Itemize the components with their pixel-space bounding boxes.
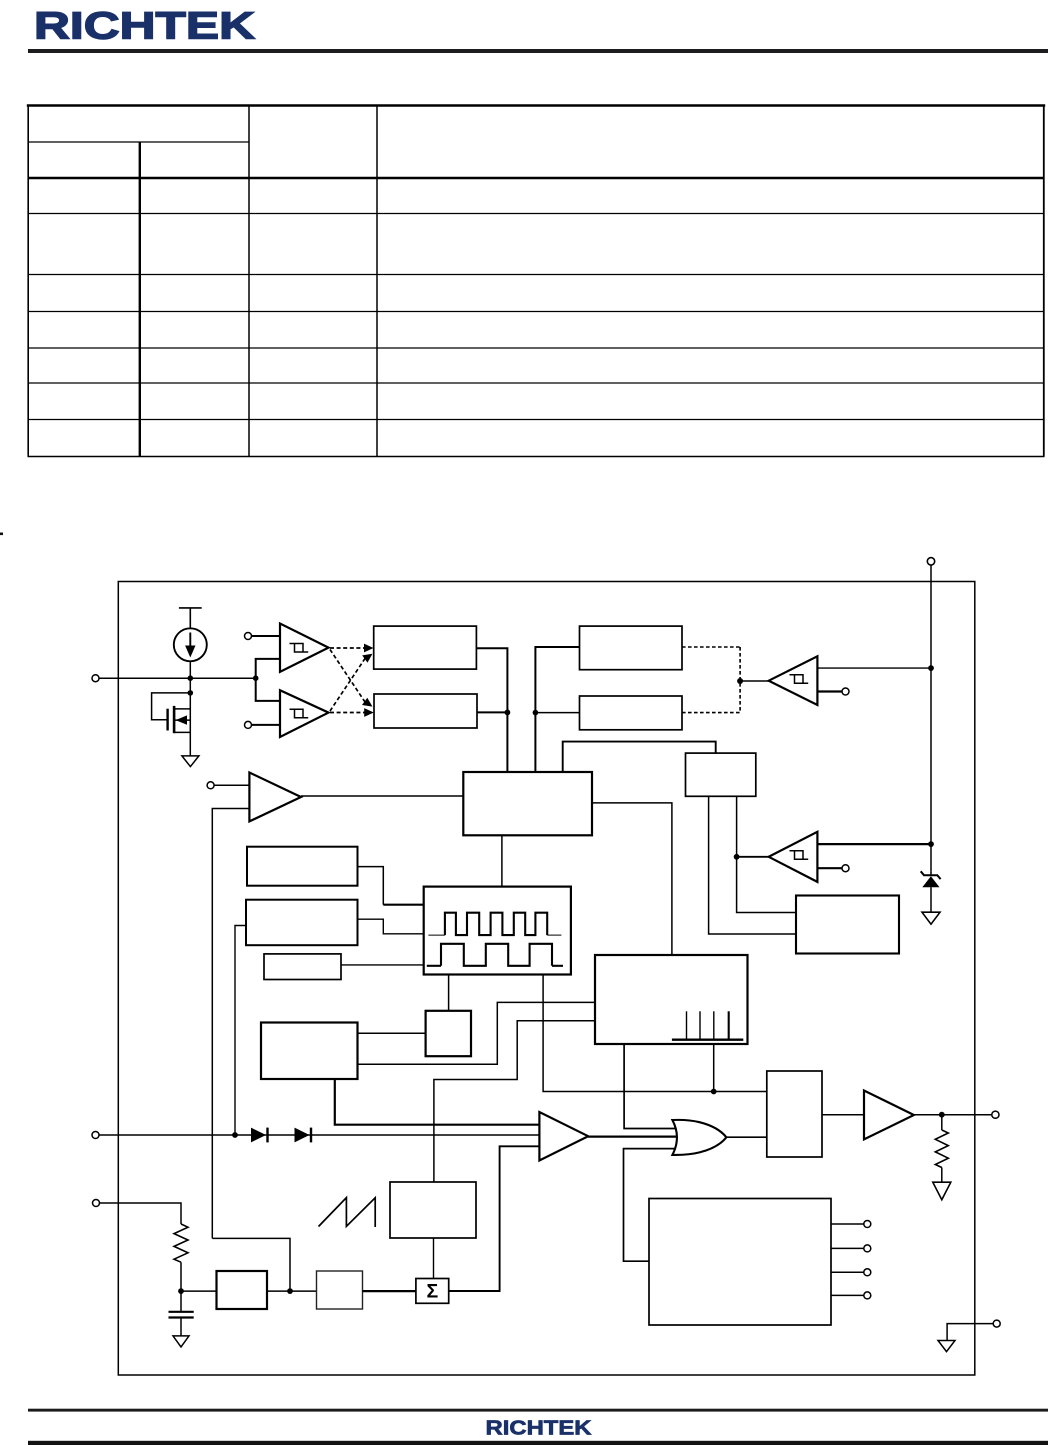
pin table xyxy=(27,106,1045,457)
terminal GND xyxy=(993,1320,1000,1327)
wire RT to resistor xyxy=(100,1203,182,1224)
VCC T-bar xyxy=(179,608,202,629)
wire node down to mosfet xyxy=(189,678,191,709)
buffer amp U5 xyxy=(249,773,301,822)
wire big box top to box K top xyxy=(563,742,716,772)
transistor Q1 xyxy=(168,706,191,756)
box A (frequency select) xyxy=(247,847,358,886)
wire node to box G xyxy=(181,1290,217,1292)
wire latch to driver xyxy=(822,1114,864,1116)
wire riser to MIN TON boxes xyxy=(535,647,579,772)
wire ramp box to sigma xyxy=(433,1238,435,1279)
wire FB main xyxy=(99,1134,539,1136)
wire control logic bottom to oscillator xyxy=(501,835,503,886)
terminal comparator1 + input xyxy=(245,633,252,640)
oscillator waveform upper xyxy=(428,913,561,935)
wire U4 lower to terminal xyxy=(817,867,842,869)
stray margin tick xyxy=(0,533,3,536)
node TON outputs join xyxy=(505,710,511,716)
dashed wire U1 to box TON1 xyxy=(330,647,367,649)
wire pulse box bottom left leg to OR gate xyxy=(624,1044,678,1129)
terminal U5 input xyxy=(207,782,214,789)
terminal U3 reference xyxy=(842,688,849,695)
box MIN2 xyxy=(580,696,683,730)
wire resistor to node xyxy=(180,1262,182,1291)
wire box B to oscillator xyxy=(358,919,424,934)
arrowhead into TON2 (straight) xyxy=(364,708,374,717)
node dashed bracket xyxy=(737,678,743,684)
wire U5 feedback input xyxy=(212,809,249,1239)
box soft-start / fault logic xyxy=(649,1199,831,1326)
wire box E to pulse box upper xyxy=(358,1002,596,1064)
PWM comparator U6 xyxy=(539,1112,588,1161)
dashed wire U2 to box TON2 xyxy=(330,712,367,714)
node FS branch xyxy=(232,1132,238,1138)
wire bottom box to OR gate lower input xyxy=(624,1149,679,1262)
box OCP/PGOOD xyxy=(796,896,899,954)
wire box A into oscillator edge xyxy=(383,904,423,906)
wire U4 tip to node xyxy=(737,856,769,858)
OR gate G1 xyxy=(672,1120,726,1155)
node at current source xyxy=(188,675,194,681)
ground (mosfet source) xyxy=(182,756,199,767)
wire branch to comparator1 - input xyxy=(256,659,280,678)
wire TON2 output xyxy=(477,711,507,713)
header rule xyxy=(28,49,1048,53)
wire box B input from FS line xyxy=(235,926,246,1136)
box TON1 xyxy=(374,626,477,669)
node riser branch xyxy=(533,710,539,716)
outer block diagram border xyxy=(118,582,975,1376)
VCC bus wire xyxy=(930,565,932,872)
dashed wire U1 to box TON2 (cross) xyxy=(330,650,366,704)
capacitor C1 xyxy=(169,1291,194,1336)
ground (GND pin) xyxy=(938,1341,955,1352)
box pulse generator xyxy=(595,955,748,1044)
arrowhead into TON2 (diagonal) xyxy=(362,698,373,707)
wire output stub 3 xyxy=(831,1271,864,1273)
terminal out 2 xyxy=(864,1245,871,1252)
terminal VCC top xyxy=(927,558,934,565)
box K (protection latch) xyxy=(686,753,756,796)
box TON2 xyxy=(374,694,477,728)
wire box E to box D xyxy=(358,1032,426,1034)
current source I1 xyxy=(174,628,207,661)
box C (divider) xyxy=(264,954,341,980)
svg-text:Σ: Σ xyxy=(426,1281,438,1303)
terminal DRV xyxy=(992,1111,999,1118)
wire terminal to U5 xyxy=(214,784,249,786)
sigma block xyxy=(416,1279,449,1304)
wire GND to ground xyxy=(947,1324,993,1341)
wire output stub 1 xyxy=(831,1223,864,1225)
node feedback branch xyxy=(287,1288,293,1294)
footer rule thick xyxy=(28,1441,1048,1445)
ground (driver resistor) xyxy=(933,1182,951,1200)
wire branch to comparator2 + input xyxy=(256,678,280,701)
wire OCSET horizontal xyxy=(99,677,256,679)
box G (ramp adjust) xyxy=(217,1271,268,1309)
wire box H to sigma xyxy=(363,1290,416,1292)
box oscillator xyxy=(424,887,571,975)
box E (soft-start) xyxy=(261,1023,358,1080)
wire U5 output to control logic xyxy=(301,795,463,797)
terminal U4 reference xyxy=(842,865,849,872)
sawtooth glyph xyxy=(319,1198,376,1227)
svg-text:RICHTEK: RICHTEK xyxy=(34,6,256,48)
wire node to comparator U3 tip xyxy=(740,680,769,682)
box D (divider latch) xyxy=(426,1011,471,1056)
wire control logic right to pulse box top xyxy=(592,803,672,955)
box control logic xyxy=(463,772,592,835)
node pulse box bottom to gate wire xyxy=(711,1089,717,1095)
wire U4 upper to VCC bus xyxy=(817,843,931,845)
ramp box xyxy=(390,1182,476,1238)
node driver output xyxy=(939,1112,945,1118)
arrowhead into TON1 (straight) xyxy=(364,644,374,653)
ground (zener) xyxy=(922,912,940,924)
box B (phase select) xyxy=(246,900,358,946)
wire current source to node xyxy=(189,661,191,678)
diode D1 xyxy=(251,1128,268,1143)
wire U3 lower to terminal xyxy=(817,690,842,692)
diode D2 xyxy=(295,1128,312,1143)
resistor R1 xyxy=(174,1224,188,1262)
wire box E bottom to PWM comparator xyxy=(335,1079,540,1125)
oscillator waveform lower xyxy=(427,944,563,966)
terminal OCSET xyxy=(92,675,99,682)
resistor R2 xyxy=(935,1115,948,1182)
wire pulse box to ramp box xyxy=(434,1021,595,1182)
box MIN1 xyxy=(580,626,683,670)
wire feedback up to buffer xyxy=(212,1238,290,1291)
wire box K to box left lower xyxy=(709,796,796,934)
wire U4 node down into box left upper xyxy=(737,857,796,913)
wire box C to oscillator xyxy=(341,964,424,966)
wire sigma to PWM comparator xyxy=(449,1146,540,1291)
terminal out 1 xyxy=(864,1221,871,1228)
comparator U2 (hysteresis) xyxy=(280,690,329,737)
node on VCC bus (U3) xyxy=(928,665,934,671)
terminal out 3 xyxy=(864,1269,871,1276)
svg-text:RICHTEK: RICHTEK xyxy=(486,1417,593,1439)
terminal out 4 xyxy=(864,1292,871,1299)
terminal comparator2 - input xyxy=(245,721,252,728)
wire box G to box H xyxy=(267,1290,317,1292)
wire oscillator right output down to gate logic xyxy=(543,975,767,1092)
wire terminal to comparator2 xyxy=(252,724,281,726)
arrowhead into TON1 (diagonal) xyxy=(362,654,372,663)
driver U7 xyxy=(864,1091,914,1140)
node OCSET branch xyxy=(253,675,259,681)
wire U6 output to OR gate xyxy=(588,1135,681,1137)
box H (slope) xyxy=(317,1271,363,1309)
node RC xyxy=(178,1288,184,1294)
box latch xyxy=(767,1071,822,1157)
pulse comb glyph xyxy=(672,1011,743,1039)
comparator U3 (left-pointing, hysteresis) xyxy=(769,656,818,705)
zener diode D3 xyxy=(921,871,941,912)
wire box K bottom to U4 node xyxy=(736,796,738,857)
wire oscillator to box D xyxy=(448,975,450,1011)
gate tie loop wire xyxy=(152,693,191,720)
node at mosfet drain/gate xyxy=(188,690,194,696)
wire riser to box MIN2 xyxy=(535,712,579,714)
wire TON1 output xyxy=(476,648,507,772)
wire output stub 4 xyxy=(831,1294,864,1296)
wire OR output to latch xyxy=(726,1136,766,1138)
footer rule thin xyxy=(28,1409,1048,1412)
wire pulse box bottom right leg xyxy=(713,1044,715,1092)
wire output stub 2 xyxy=(831,1247,864,1249)
comparator U4 (left-pointing, hysteresis) xyxy=(769,832,818,882)
wire box A to oscillator xyxy=(358,867,384,905)
ground (capacitor) xyxy=(173,1336,189,1347)
wire terminal to comparator1 xyxy=(252,635,281,637)
node U4 tip xyxy=(734,854,740,860)
wire driver output xyxy=(914,1114,992,1116)
terminal RT xyxy=(93,1200,100,1207)
terminal FB xyxy=(92,1132,99,1139)
node on VCC bus (U4) xyxy=(928,841,934,847)
wire U3 upper to VCC bus xyxy=(817,667,931,669)
comparator U1 (hysteresis) xyxy=(280,624,329,672)
dashed bracket MIN outputs xyxy=(682,647,740,713)
dashed wire U2 to box TON1 (cross) xyxy=(330,657,366,711)
